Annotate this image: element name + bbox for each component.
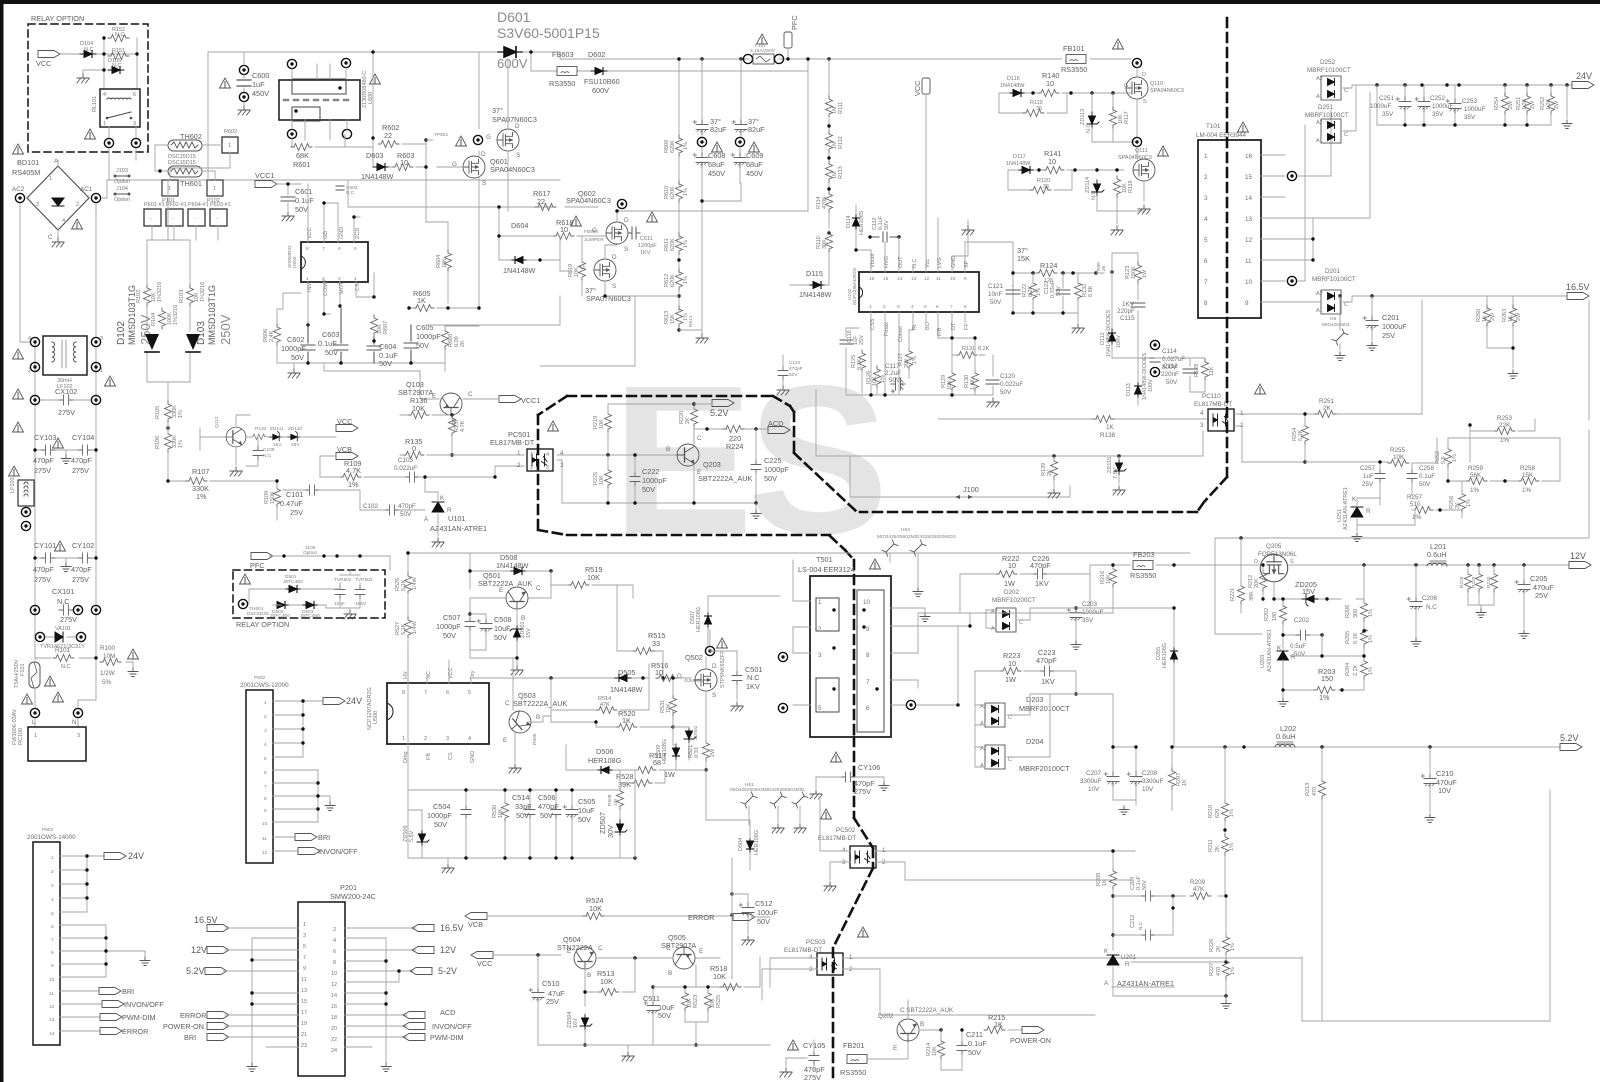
C505 — [563, 805, 578, 819]
dashed isolation main — [860, 18, 1227, 512]
svg-text:8.2K: 8.2K — [978, 346, 990, 352]
svg-text:D: D — [712, 663, 717, 670]
svg-text:7.5V: 7.5V — [1113, 467, 1119, 479]
R213 — [1319, 778, 1326, 799]
jumper resistor — [426, 139, 433, 141]
svg-text:MBRF10100CT: MBRF10100CT — [1307, 67, 1351, 74]
svg-text:CY101: CY101 — [34, 541, 56, 550]
svg-text:470pF: 470pF — [1036, 656, 1057, 665]
svg-text:D504: D504 — [738, 838, 744, 851]
svg-text:A1: A1 — [980, 763, 987, 769]
VCC1 tag — [255, 181, 277, 188]
cap C600 — [239, 65, 248, 74]
INVON/OFF tag — [403, 1023, 425, 1030]
svg-text:RELAY OPTION: RELAY OPTION — [31, 14, 84, 23]
svg-text:MBRF10100CT: MBRF10100CT — [1305, 112, 1349, 119]
svg-text:BRI: BRI — [318, 833, 330, 842]
R508 small — [617, 788, 624, 809]
svg-text:1: 1 — [100, 368, 103, 374]
svg-text:J104: J104 — [116, 186, 128, 192]
svg-text:7: 7 — [950, 304, 953, 310]
svg-text:PWM-DIM: PWM-DIM — [122, 1013, 156, 1022]
svg-text:1K: 1K — [1182, 779, 1188, 786]
svg-text:1: 1 — [517, 450, 521, 457]
svg-text:10K: 10K — [713, 972, 726, 981]
svg-text:10K: 10K — [589, 904, 602, 913]
svg-text:1%: 1% — [1230, 943, 1236, 951]
svg-text:R224: R224 — [726, 442, 743, 451]
svg-text:6: 6 — [936, 304, 939, 310]
svg-text:EL817MB-DT: EL817MB-DT — [818, 835, 856, 842]
wire — [61, 38, 137, 89]
C510 — [529, 988, 544, 1002]
svg-text:47K: 47K — [1193, 886, 1205, 893]
svg-text:D114: D114 — [846, 215, 852, 228]
ground — [77, 74, 89, 83]
svg-text:C602: C602 — [287, 335, 304, 344]
svg-text:2W: 2W — [710, 748, 716, 757]
svg-text:A1: A1 — [1316, 138, 1323, 144]
svg-text:D602: D602 — [588, 50, 605, 59]
svg-text:S: S — [1143, 99, 1147, 105]
svg-text:2K: 2K — [1216, 945, 1222, 952]
svg-text:C114: C114 — [1162, 348, 1177, 355]
svg-text:RL101: RL101 — [92, 96, 98, 112]
svg-text:C: C — [536, 585, 541, 592]
svg-text:N: N — [72, 719, 77, 726]
svg-text:1K: 1K — [417, 296, 426, 305]
cap C603 N.C — [336, 186, 344, 190]
svg-text:35V: 35V — [1464, 114, 1476, 121]
svg-text:150: 150 — [1321, 674, 1333, 683]
svg-text:VCB: VCB — [468, 920, 483, 929]
svg-text:10K: 10K — [872, 376, 878, 386]
svg-text:50V: 50V — [1056, 286, 1062, 296]
resistor R224 — [723, 426, 744, 433]
PWM-DIM tag — [403, 1034, 425, 1041]
svg-text:4: 4 — [51, 897, 54, 903]
terminal — [617, 199, 626, 208]
svg-text:470pF: 470pF — [71, 456, 92, 465]
wire AC2 down — [20, 204, 29, 342]
svg-text:1000uF: 1000uF — [1382, 322, 1407, 331]
svg-text:3300uF: 3300uF — [1142, 778, 1164, 785]
svg-text:4: 4 — [1204, 216, 1208, 223]
diode D104 — [80, 51, 96, 58]
svg-text:11K: 11K — [1209, 366, 1215, 376]
svg-text:C: C — [48, 234, 53, 241]
plug box P102 — [207, 180, 223, 196]
svg-text:10K: 10K — [1106, 574, 1112, 584]
svg-text:D: D — [612, 254, 617, 261]
svg-text:SBT2222A_AUK: SBT2222A_AUK — [478, 579, 532, 588]
net VCC — [38, 51, 60, 58]
svg-text:180: 180 — [1272, 612, 1278, 621]
svg-text:7: 7 — [424, 690, 427, 696]
svg-text:1: 1 — [168, 186, 171, 192]
svg-text:S: S — [624, 246, 628, 253]
svg-text:R206: R206 — [1345, 605, 1351, 618]
svg-text:G: G — [677, 673, 682, 680]
svg-text:50V: 50V — [291, 353, 304, 362]
svg-text:VCC: VCC — [913, 81, 922, 96]
svg-text:TVR502: TVR502 — [334, 577, 352, 583]
jumper J103 — [115, 175, 129, 177]
svg-text:8: 8 — [264, 796, 267, 802]
resistor R134 — [250, 434, 267, 440]
svg-text:1000pF: 1000pF — [416, 332, 441, 341]
R256 — [1459, 491, 1466, 512]
mosfet Q110 — [1126, 77, 1148, 99]
svg-text:0.6uH: 0.6uH — [1276, 732, 1295, 741]
svg-text:N.C: N.C — [84, 47, 94, 53]
svg-text:STP9NK65ZFP: STP9NK65ZFP — [720, 650, 726, 688]
svg-text:C510: C510 — [542, 979, 559, 988]
svg-text:-: - — [216, 216, 218, 222]
svg-text:R105: R105 — [155, 406, 161, 419]
resistor R619 + mosfet Q605 — [579, 259, 586, 280]
16.5V tag — [1567, 293, 1589, 300]
D112 — [1109, 329, 1116, 345]
svg-text:16.5V: 16.5V — [194, 915, 218, 925]
relay option 2 dashed box — [233, 570, 385, 618]
svg-text:R253: R253 — [1497, 415, 1513, 422]
svg-text:510: 510 — [1410, 501, 1421, 508]
svg-text:2: 2 — [424, 736, 427, 742]
R202 — [1280, 603, 1287, 624]
resistor chain R609-R613 — [678, 59, 680, 330]
R523 R525 — [682, 990, 689, 1011]
svg-text:FW3006-03AV: FW3006-03AV — [12, 709, 18, 745]
svg-text:D252: D252 — [1320, 59, 1336, 66]
svg-text:CSS: CSS — [870, 318, 876, 330]
svg-text:C208: C208 — [1142, 770, 1158, 777]
svg-text:0.47uF: 0.47uF — [280, 499, 303, 508]
svg-text:1%: 1% — [683, 142, 689, 150]
svg-text:Q202: Q202 — [878, 1013, 894, 1020]
svg-text:S: S — [712, 692, 716, 699]
svg-text:RS3550: RS3550 — [549, 79, 575, 88]
svg-text:5.1K: 5.1K — [1298, 429, 1304, 441]
svg-text:F101: F101 — [20, 663, 26, 676]
svg-text:FB201: FB201 — [843, 1041, 865, 1050]
svg-text:P604-#1: P604-#1 — [188, 202, 209, 208]
svg-text:12: 12 — [262, 850, 268, 856]
R206 R205 R204 chain — [1361, 600, 1368, 621]
svg-text:R112: R112 — [838, 136, 844, 149]
svg-text:50V: 50V — [434, 820, 447, 829]
svg-text:N.C: N.C — [61, 664, 71, 670]
svg-text:5: 5 — [1204, 237, 1208, 244]
svg-text:22: 22 — [384, 131, 392, 140]
svg-text:15K: 15K — [670, 314, 676, 324]
svg-text:18: 18 — [331, 1015, 337, 1021]
svg-text:9: 9 — [264, 808, 267, 814]
svg-text:5.2V: 5.2V — [710, 408, 729, 418]
svg-text:P201: P201 — [340, 883, 357, 892]
wire F/B to PC110 — [938, 418, 1206, 420]
svg-text:S: S — [482, 180, 486, 187]
svg-text:Option: Option — [114, 197, 130, 203]
svg-text:6: 6 — [1204, 258, 1208, 265]
svg-text:3: 3 — [77, 733, 80, 739]
cap C602 — [301, 325, 315, 363]
R531 — [670, 695, 677, 716]
choke LF102 — [43, 336, 87, 375]
svg-text:30FC460: 30FC460 — [283, 579, 303, 585]
svg-text:2001OWS-14000: 2001OWS-14000 — [27, 834, 76, 841]
svg-text:1000uF: 1000uF — [1464, 106, 1486, 113]
svg-text:3: 3 — [842, 859, 846, 866]
ground — [57, 230, 59, 238]
svg-text:Fmax: Fmax — [884, 322, 890, 336]
svg-text:8: 8 — [866, 652, 870, 659]
C210 — [1421, 774, 1436, 788]
resistor R104 — [159, 308, 166, 329]
wire to ACD — [694, 428, 768, 430]
svg-text:-: - — [150, 216, 152, 222]
svg-text:1: 1 — [228, 143, 231, 149]
svg-text:1%: 1% — [683, 276, 689, 284]
svg-text:C206: C206 — [1422, 595, 1438, 602]
svg-text:C514: C514 — [512, 793, 529, 802]
svg-text:11: 11 — [49, 991, 54, 997]
svg-text:2: 2 — [517, 462, 521, 469]
BRI tag — [273, 836, 295, 838]
warning — [9, 466, 20, 476]
R221 — [1238, 583, 1245, 604]
svg-text:450V: 450V — [355, 601, 367, 607]
svg-text:C258: C258 — [1419, 465, 1435, 472]
svg-text:8: 8 — [306, 246, 309, 252]
right fan-out — [345, 928, 416, 1062]
svg-text:BD101: BD101 — [17, 158, 39, 167]
svg-text:50V: 50V — [789, 372, 798, 378]
svg-text:CY102: CY102 — [72, 541, 94, 550]
svg-text:50V: 50V — [1166, 379, 1178, 386]
pin stubs bottom — [871, 312, 965, 352]
svg-text:1%: 1% — [912, 356, 918, 364]
svg-text:D113: D113 — [1126, 383, 1132, 396]
svg-text:10K: 10K — [599, 475, 605, 485]
svg-text:2.2K: 2.2K — [1353, 664, 1359, 676]
svg-text:ES: ES — [612, 341, 883, 578]
svg-text:C109: C109 — [263, 447, 275, 453]
svg-text:C225: C225 — [764, 456, 781, 465]
svg-text:C102: C102 — [363, 503, 379, 510]
svg-text:D204: D204 — [1026, 737, 1043, 746]
svg-text:BRI: BRI — [122, 987, 134, 996]
svg-text:20K: 20K — [904, 358, 910, 368]
diode D503 — [302, 602, 318, 609]
plug P602-#1 — [166, 209, 183, 226]
svg-text:Q205: Q205 — [1266, 543, 1282, 550]
svg-text:50V: 50V — [990, 299, 1002, 306]
svg-text:6: 6 — [446, 690, 449, 696]
svg-text:NCP1207ADR2G: NCP1207ADR2G — [367, 687, 373, 730]
svg-text:SMW200-24C: SMW200-24C — [330, 892, 376, 901]
svg-text:PFC: PFC — [250, 561, 265, 570]
svg-text:1: 1 — [213, 186, 216, 192]
svg-text:U203: U203 — [1260, 655, 1266, 668]
svg-text:0.022uF: 0.022uF — [1000, 381, 1023, 388]
svg-text:L: L — [32, 719, 36, 726]
svg-text:3: 3 — [264, 728, 267, 734]
svg-text:R614: R614 — [688, 315, 694, 327]
svg-text:6: 6 — [264, 770, 267, 776]
warning — [13, 144, 24, 154]
svg-text:4: 4 — [103, 92, 106, 98]
wire FB603 branch — [531, 52, 808, 211]
warning — [72, 219, 83, 229]
svg-text:12V: 12V — [191, 945, 207, 955]
svg-text:FSU10B60: FSU10B60 — [584, 77, 620, 86]
mosfet Q111 — [1133, 159, 1155, 181]
svg-text:1N4148W-DIODES: 1N4148W-DIODES — [1106, 309, 1112, 357]
SF wire — [952, 220, 1013, 273]
svg-text:POWER-ON: POWER-ON — [1010, 1036, 1051, 1045]
wire y456 — [816, 390, 1203, 497]
svg-text:Option: Option — [303, 550, 317, 556]
D507 — [705, 612, 712, 628]
svg-text:R202: R202 — [1264, 608, 1270, 621]
svg-text:D102: D102 — [116, 321, 127, 345]
svg-text:BO: BO — [925, 321, 931, 330]
svg-text:N.C: N.C — [112, 63, 122, 69]
svg-text:15: 15 — [883, 276, 889, 282]
svg-text:A1: A1 — [1316, 308, 1323, 314]
svg-text:2: 2 — [76, 202, 79, 208]
wire — [83, 70, 104, 74]
svg-text:R221: R221 — [1230, 588, 1236, 601]
svg-text:1K: 1K — [1508, 315, 1514, 322]
svg-text:Ctimer: Ctimer — [898, 326, 904, 342]
svg-text:1N4148W: 1N4148W — [361, 172, 394, 181]
svg-text:C118: C118 — [1163, 363, 1178, 370]
svg-text:5: 5 — [51, 911, 54, 917]
C112 cap — [870, 232, 899, 242]
VCB tag — [465, 913, 487, 920]
resistor R601 — [291, 134, 345, 147]
gnd wire above — [937, 217, 939, 219]
svg-text:24: 24 — [331, 1048, 337, 1054]
svg-text:C202: C202 — [1294, 617, 1310, 624]
svg-text:2: 2 — [1204, 174, 1208, 181]
svg-text:1N4148W: 1N4148W — [496, 561, 529, 570]
svg-text:1: 1 — [882, 847, 886, 854]
svg-text:47K: 47K — [600, 702, 610, 708]
svg-text:1: 1 — [303, 922, 306, 928]
svg-text:B: B — [920, 1021, 924, 1028]
terminals right — [778, 652, 787, 661]
svg-text:1N4148W: 1N4148W — [1000, 83, 1025, 89]
svg-text:3: 3 — [809, 966, 813, 973]
D203 — [985, 703, 1005, 727]
svg-text:275V: 275V — [72, 466, 89, 475]
jumper J104 — [115, 193, 129, 195]
caps TVR502 TVR503 — [335, 585, 345, 599]
svg-text:FB: FB — [426, 753, 432, 760]
svg-text:C: C — [505, 700, 510, 707]
svg-text:15: 15 — [1245, 174, 1253, 181]
svg-text:MBRF10100CT: MBRF10100CT — [1312, 276, 1356, 283]
svg-text:16: 16 — [1245, 153, 1253, 160]
svg-text:B: B — [666, 446, 670, 453]
svg-text:220pF: 220pF — [1117, 308, 1135, 315]
svg-text:RS3550: RS3550 — [1061, 65, 1087, 74]
svg-text:1: 1 — [34, 733, 37, 739]
svg-text:300: 300 — [1353, 609, 1359, 618]
svg-text:3: 3 — [338, 276, 341, 282]
svg-text:13: 13 — [301, 988, 307, 994]
svg-text:1: 1 — [530, 452, 533, 458]
svg-text:2: 2 — [333, 927, 336, 933]
svg-text:0.1uF: 0.1uF — [968, 1039, 987, 1048]
svg-text:JUMPER: JUMPER — [584, 237, 604, 243]
pin wires gnd group — [273, 770, 330, 822]
wires under IC — [846, 322, 993, 395]
svg-text:GND: GND — [951, 256, 957, 268]
svg-text:6: 6 — [333, 949, 336, 955]
diode D105 — [108, 67, 124, 74]
resistor R526 — [405, 573, 412, 594]
svg-text:1200pF: 1200pF — [638, 243, 657, 249]
svg-text:C251: C251 — [1379, 95, 1395, 102]
svg-text:N.C: N.C — [912, 259, 918, 269]
svg-text:1N4148W: 1N4148W — [1006, 161, 1031, 167]
svg-text:RS3550: RS3550 — [840, 1068, 866, 1077]
svg-text:N.C: N.C — [263, 453, 272, 459]
svg-text:Q112: Q112 — [214, 416, 220, 428]
wires — [147, 180, 190, 403]
svg-text:4: 4 — [333, 938, 336, 944]
svg-text:B: B — [521, 615, 525, 622]
D114 HER108S — [853, 214, 860, 230]
svg-text:1: 1 — [103, 121, 106, 127]
svg-text:50V: 50V — [968, 1048, 981, 1057]
svg-text:12: 12 — [331, 982, 337, 988]
resistor R219 — [605, 411, 612, 432]
resistor R108 — [274, 486, 281, 507]
svg-text:S0068R02: S0068R02 — [287, 245, 293, 268]
svg-text:33: 33 — [652, 639, 660, 648]
svg-text:10: 10 — [863, 599, 871, 606]
svg-text:3: 3 — [303, 933, 306, 939]
wire relay terms down — [96, 149, 136, 215]
wire — [345, 52, 373, 167]
R227 — [1223, 958, 1230, 979]
svg-text:1KV: 1KV — [640, 250, 651, 256]
svg-text:1%3216: 1%3216 — [157, 282, 163, 302]
C511 — [644, 1001, 659, 1015]
svg-text:1000uF: 1000uF — [1370, 103, 1392, 110]
CY105 — [788, 1040, 799, 1050]
svg-text:D116: D116 — [1007, 76, 1020, 82]
svg-text:D203: D203 — [1026, 695, 1043, 704]
svg-text:FB603: FB603 — [552, 50, 574, 59]
svg-text:4: 4 — [911, 304, 914, 310]
svg-text:R113: R113 — [838, 166, 844, 179]
svg-text:R228: R228 — [1459, 576, 1465, 588]
svg-text:2K: 2K — [460, 340, 466, 347]
mosfet Q601 — [463, 156, 485, 178]
svg-text:FF: FF — [964, 323, 970, 330]
svg-text:2K: 2K — [1455, 502, 1461, 509]
wires down to C504 rail — [408, 650, 515, 858]
caps C608 C609 82uF — [702, 59, 741, 137]
svg-text:CY103: CY103 — [34, 433, 56, 442]
fuse F101 — [743, 54, 752, 63]
